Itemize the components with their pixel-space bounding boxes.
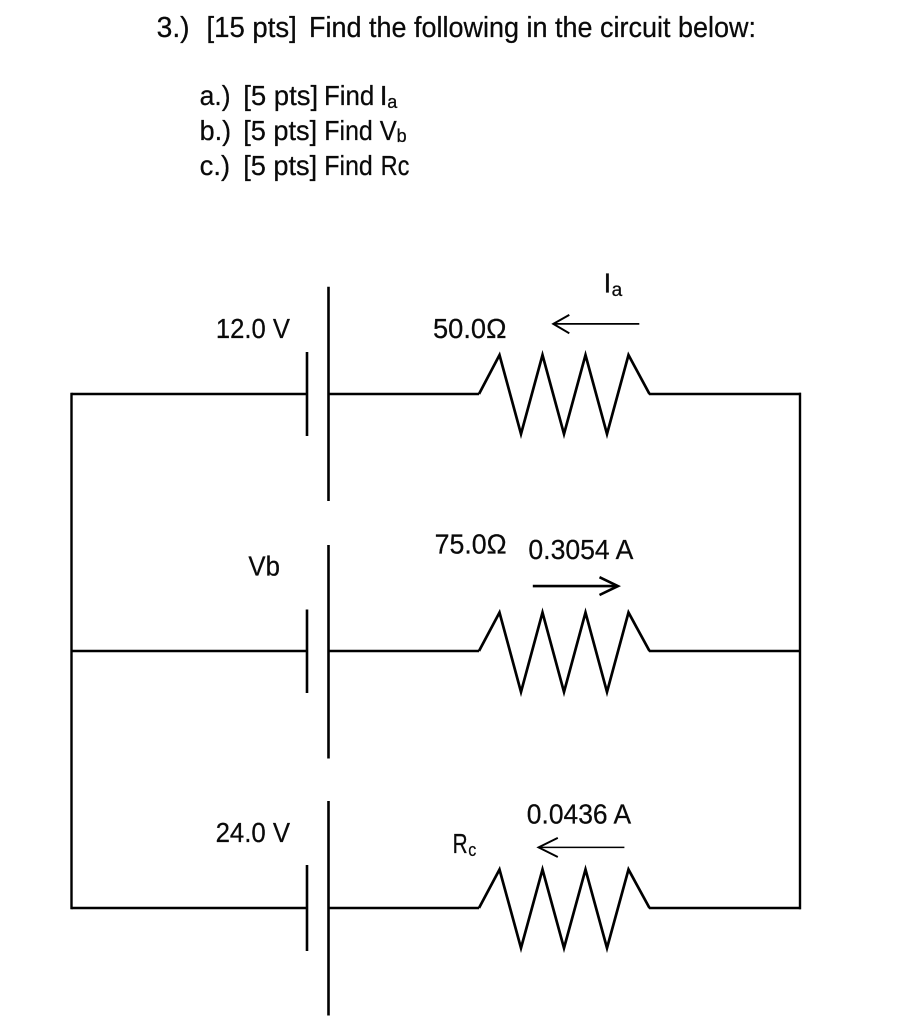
svg-text:0.0436 A: 0.0436 A	[527, 798, 632, 829]
wire middle-left segment	[72, 650, 308, 652]
current arrow 0.3054 A line	[533, 585, 615, 588]
svg-text:[5 pts]: [5 pts]	[243, 115, 317, 146]
current arrow 0.0436 A head	[539, 838, 558, 857]
svg-text:Vb: Vb	[248, 550, 280, 581]
svg-text:R: R	[453, 828, 468, 859]
battery V1 short plate	[306, 352, 309, 436]
current arrow Ia line	[553, 323, 639, 325]
svg-text:Find: Find	[324, 115, 373, 146]
battery V3 short plate	[306, 865, 309, 951]
svg-text:a: a	[612, 280, 623, 301]
battery V2 (Vb) long plate	[327, 545, 330, 759]
svg-text:a.): a.)	[200, 80, 231, 111]
wire right vertical rail	[799, 393, 801, 909]
battery V1 long plate	[327, 287, 330, 501]
svg-text:I: I	[604, 268, 612, 299]
current arrow 0.0436 A line	[539, 846, 625, 848]
svg-text:75.0Ω: 75.0Ω	[435, 528, 507, 559]
svg-text:0.3054 A: 0.3054 A	[528, 534, 633, 565]
svg-text:c: c	[468, 840, 476, 860]
battery V3 long plate	[327, 801, 330, 1016]
svg-text:b: b	[397, 126, 407, 146]
resistor R2 (75.0 ohm) zigzag	[479, 613, 650, 693]
svg-text:[15 pts]: [15 pts]	[207, 12, 297, 44]
current arrow Ia head	[553, 315, 569, 333]
svg-text:50.0Ω: 50.0Ω	[433, 313, 507, 344]
wire top-left segment	[72, 393, 308, 395]
resistor R1 (50.0 ohm) zigzag	[479, 355, 650, 434]
svg-text:[5 pts]: [5 pts]	[243, 150, 317, 181]
battery V2 (Vb) short plate	[306, 610, 309, 694]
wire top-right segment	[649, 393, 801, 395]
svg-text:[5 pts]: [5 pts]	[243, 80, 318, 111]
wire left vertical rail	[70, 393, 72, 909]
current arrow 0.3054 A head	[600, 577, 619, 595]
wire top-middle segment	[329, 393, 480, 395]
svg-text:c.): c.)	[200, 150, 231, 181]
svg-text:Find: Find	[324, 80, 374, 111]
wire bottom-center segment	[329, 907, 480, 909]
svg-text:Find: Find	[324, 150, 373, 181]
svg-text:b.): b.)	[200, 115, 232, 146]
svg-text:Find the following in the circ: Find the following in the circuit below:	[309, 12, 756, 44]
svg-text:3.): 3.)	[157, 12, 190, 44]
wire bottom-right segment	[649, 907, 801, 909]
resistor R3 (Rc) zigzag	[479, 870, 650, 949]
wire middle-center segment	[329, 650, 480, 652]
wire bottom-left segment	[72, 907, 308, 909]
wire middle-right segment	[649, 650, 801, 652]
svg-text:Rc: Rc	[381, 150, 410, 181]
svg-text:V: V	[380, 115, 397, 146]
svg-text:a: a	[387, 92, 398, 112]
svg-text:12.0 V: 12.0 V	[216, 313, 290, 344]
svg-text:24.0 V: 24.0 V	[216, 817, 291, 848]
